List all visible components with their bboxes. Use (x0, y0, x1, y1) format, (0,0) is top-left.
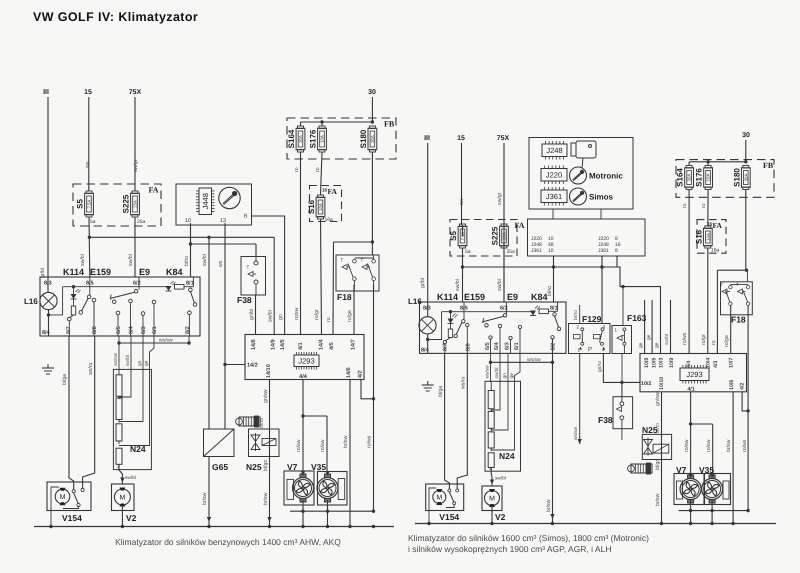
svg-text:8/7: 8/7 (66, 326, 72, 334)
svg-text:10/4: 10/4 (706, 358, 712, 368)
svg-text:14/7: 14/7 (351, 339, 357, 350)
svg-text:VW GOLF IV: Klimatyzator: VW GOLF IV: Klimatyzator (33, 10, 198, 24)
svg-text:10A: 10A (320, 135, 325, 143)
svg-text:8/1: 8/1 (550, 306, 558, 312)
svg-text:J293: J293 (298, 356, 314, 365)
svg-text:ro/ws: ro/ws (682, 332, 688, 345)
svg-text:ws/sw: ws/sw (573, 426, 579, 440)
svg-text:ws/ro: ws/ro (461, 376, 467, 389)
svg-text:M: M (60, 494, 66, 501)
svg-text:8: 8 (615, 248, 618, 254)
svg-text:4/1: 4/1 (687, 387, 694, 393)
svg-text:25A: 25A (502, 232, 507, 240)
svg-text:N24: N24 (130, 444, 146, 454)
svg-text:K84: K84 (531, 292, 548, 302)
svg-text:25A: 25A (133, 200, 138, 208)
svg-text:4/3: 4/3 (713, 361, 719, 368)
svg-text:30A: 30A (687, 174, 692, 182)
svg-text:V154: V154 (62, 513, 82, 523)
svg-text:gr/bl: gr/bl (420, 278, 426, 288)
svg-text:8/3: 8/3 (423, 306, 431, 312)
svg-text:75X: 75X (497, 135, 510, 142)
svg-text:FA: FA (149, 186, 159, 195)
svg-text:J361: J361 (531, 248, 542, 254)
svg-text:sw/bl: sw/bl (495, 476, 506, 482)
svg-text:ws/ro: ws/ro (88, 362, 94, 375)
svg-text:4/2: 4/2 (740, 383, 746, 390)
svg-text:E9: E9 (139, 267, 150, 277)
svg-text:F129: F129 (582, 314, 602, 324)
svg-text:br/sw: br/sw (263, 492, 269, 505)
svg-text:ro/sw: ro/sw (706, 439, 712, 452)
svg-text:10/10: 10/10 (659, 377, 665, 390)
svg-text:br/sw: br/sw (546, 499, 552, 512)
svg-text:14/6: 14/6 (346, 367, 352, 378)
svg-text:K84: K84 (166, 267, 183, 277)
svg-text:6/5: 6/5 (116, 326, 122, 334)
svg-text:Motronic: Motronic (589, 172, 623, 181)
svg-text:S176: S176 (695, 168, 704, 187)
svg-text:T: T (736, 282, 739, 287)
svg-text:E159: E159 (464, 292, 485, 302)
svg-text:gn/ro: gn/ro (597, 361, 603, 372)
svg-text:M: M (489, 496, 495, 503)
svg-text:ws/sw: ws/sw (159, 338, 173, 344)
svg-text:ge: ge (639, 342, 644, 348)
svg-text:ro: ro (701, 203, 707, 208)
svg-text:br/sw: br/sw (202, 492, 208, 505)
svg-text:6/3: 6/3 (141, 326, 147, 334)
svg-text:25a: 25a (507, 249, 516, 255)
svg-text:S176: S176 (309, 129, 318, 148)
svg-text:sw: sw (459, 198, 465, 205)
svg-text:bl/ro: bl/ro (184, 256, 190, 266)
svg-text:III: III (424, 135, 430, 142)
svg-text:10/2: 10/2 (641, 381, 651, 387)
svg-text:bl/gn: bl/gn (655, 459, 661, 470)
svg-text:14/4: 14/4 (319, 338, 325, 350)
svg-text:G65: G65 (212, 462, 228, 472)
svg-text:14/10: 14/10 (266, 364, 272, 378)
svg-text:sw/bl: sw/bl (455, 279, 461, 291)
svg-text:14/2: 14/2 (247, 363, 258, 369)
svg-text:J220: J220 (546, 170, 562, 179)
svg-text:sw/bl: sw/bl (202, 254, 208, 266)
svg-text:10/5: 10/5 (652, 358, 658, 368)
svg-text:gn/bl: gn/bl (249, 309, 255, 320)
svg-text:ge: ge (655, 342, 660, 348)
svg-text:gn: gn (278, 314, 284, 320)
svg-text:10A: 10A (706, 174, 711, 182)
svg-text:10A: 10A (318, 203, 323, 211)
svg-text:J448: J448 (201, 193, 210, 209)
svg-text:ws: ws (218, 260, 224, 267)
svg-text:6/3: 6/3 (505, 342, 511, 350)
svg-text:sw/bl: sw/bl (494, 368, 500, 379)
svg-text:N25: N25 (246, 462, 262, 472)
svg-text:FB: FB (384, 120, 395, 129)
svg-text:L16: L16 (408, 297, 422, 306)
svg-text:6/1: 6/1 (514, 342, 520, 350)
svg-text:N24: N24 (499, 451, 515, 461)
svg-text:FA: FA (713, 221, 723, 230)
svg-text:E9: E9 (507, 292, 518, 302)
svg-text:T: T (361, 258, 364, 263)
svg-text:14/8: 14/8 (251, 339, 257, 350)
svg-text:16a: 16a (325, 217, 334, 223)
svg-text:ge: ge (647, 334, 652, 340)
svg-text:J361: J361 (546, 192, 562, 201)
svg-text:6/1: 6/1 (152, 326, 158, 334)
svg-text:8/1: 8/1 (186, 281, 194, 287)
svg-text:ro/sw: ro/sw (296, 439, 302, 452)
svg-text:ro/ge: ro/ge (724, 335, 730, 347)
svg-text:br/sw: br/sw (343, 435, 349, 448)
svg-text:S225: S225 (122, 194, 131, 213)
svg-text:N25: N25 (642, 425, 658, 435)
svg-text:FA: FA (515, 221, 525, 230)
svg-text:14/5: 14/5 (280, 339, 286, 350)
svg-text:sw/bl: sw/bl (125, 475, 136, 481)
svg-text:F38: F38 (237, 295, 252, 305)
svg-text:ge: ge (145, 360, 150, 366)
svg-text:sw/bl: sw/bl (664, 334, 670, 345)
svg-text:30A: 30A (298, 135, 303, 143)
svg-text:8/4: 8/4 (42, 330, 51, 336)
svg-text:S5: S5 (76, 199, 85, 209)
svg-text:gn: gn (503, 373, 508, 379)
svg-text:bl/gn: bl/gn (263, 460, 269, 471)
svg-text:sw/gr: sw/gr (133, 159, 139, 172)
svg-text:F163: F163 (627, 313, 647, 323)
svg-text:S180: S180 (732, 168, 741, 187)
svg-text:S164: S164 (287, 129, 296, 148)
svg-text:30: 30 (742, 132, 750, 139)
svg-text:30A: 30A (743, 174, 748, 182)
svg-text:ro: ro (326, 317, 332, 322)
svg-text:M: M (436, 495, 442, 502)
svg-text:10/9: 10/9 (669, 358, 675, 368)
svg-text:ws/sw: ws/sw (113, 352, 119, 366)
svg-text:ro/sw: ro/sw (320, 439, 326, 452)
svg-text:sw/bl: sw/bl (268, 310, 274, 322)
svg-text:P: P (588, 346, 592, 353)
svg-text:Klimatyzator do silników 1600: Klimatyzator do silników 1600 cm³ (Simos… (408, 533, 649, 543)
svg-text:ws/sw: ws/sw (485, 365, 491, 379)
svg-text:T: T (721, 282, 724, 287)
svg-text:sw: sw (85, 161, 91, 168)
svg-text:ro/ws: ro/ws (367, 435, 373, 448)
svg-text:V2: V2 (126, 513, 137, 523)
svg-text:F18: F18 (731, 315, 746, 325)
svg-text:L16: L16 (24, 297, 38, 306)
svg-text:S164: S164 (676, 168, 685, 187)
svg-text:6/4: 6/4 (129, 325, 135, 334)
svg-text:ge: ge (510, 373, 515, 379)
svg-text:sw/bl: sw/bl (128, 254, 134, 266)
svg-text:8/8: 8/8 (92, 326, 98, 334)
svg-text:ro/ws: ro/ws (742, 439, 748, 452)
svg-text:4/2: 4/2 (358, 370, 364, 378)
svg-text:ro: ro (682, 203, 688, 208)
svg-text:K114: K114 (63, 267, 84, 277)
svg-text:III: III (43, 89, 49, 96)
svg-text:ws/sw: ws/sw (527, 357, 541, 363)
svg-text:S5: S5 (449, 231, 458, 241)
svg-text:sw/bl: sw/bl (497, 279, 503, 291)
svg-text:br/ro: br/ro (573, 310, 579, 320)
svg-text:5a: 5a (90, 219, 96, 225)
svg-text:E159: E159 (90, 267, 111, 277)
svg-text:sw/bl: sw/bl (80, 254, 86, 266)
svg-text:ro/sw: ro/sw (684, 439, 690, 452)
svg-text:V154: V154 (439, 512, 459, 522)
svg-text:6/4: 6/4 (494, 341, 500, 350)
svg-text:10/6: 10/6 (729, 380, 735, 390)
svg-text:8: 8 (244, 214, 247, 220)
svg-text:S16: S16 (307, 199, 316, 214)
svg-text:10A: 10A (705, 233, 710, 241)
svg-text:8/7: 8/7 (443, 343, 449, 351)
svg-text:J248: J248 (546, 146, 562, 155)
svg-text:6/2: 6/2 (133, 281, 141, 287)
svg-text:V2: V2 (495, 512, 506, 522)
svg-text:ro/gr: ro/gr (701, 334, 707, 345)
svg-text:i silników wysokoprężnych 1900: i silników wysokoprężnych 1900 cm³ AGP, … (408, 544, 611, 554)
svg-text:10/7: 10/7 (729, 358, 735, 368)
svg-text:S225: S225 (491, 226, 500, 245)
svg-text:M: M (119, 495, 125, 502)
svg-text:S16: S16 (694, 229, 703, 244)
svg-text:J361: J361 (598, 248, 609, 254)
svg-text:Klimatyzator do silników benzy: Klimatyzator do silników benzynowych 140… (115, 537, 341, 547)
svg-text:Simos: Simos (589, 193, 614, 202)
svg-text:J293: J293 (686, 370, 702, 379)
svg-text:4/5: 4/5 (329, 342, 335, 350)
svg-text:8/2: 8/2 (185, 326, 191, 334)
svg-text:bl/ro: bl/ro (547, 286, 553, 296)
svg-text:10/3: 10/3 (659, 358, 665, 368)
svg-text:4/1: 4/1 (298, 342, 304, 350)
svg-text:br/ro: br/ro (259, 418, 265, 428)
svg-text:10: 10 (548, 248, 554, 254)
svg-text:F18: F18 (337, 292, 352, 302)
svg-text:16a: 16a (711, 248, 720, 254)
svg-text:10/8: 10/8 (644, 358, 650, 368)
svg-text:sw/gr: sw/gr (497, 192, 503, 205)
svg-text:S180: S180 (359, 129, 368, 148)
svg-text:ro/ge: ro/ge (347, 310, 353, 322)
svg-text:25a: 25a (137, 219, 146, 225)
svg-text:4/4: 4/4 (299, 374, 308, 380)
svg-text:T: T (247, 265, 250, 270)
svg-text:8/8: 8/8 (466, 343, 472, 351)
svg-text:K114: K114 (437, 292, 458, 302)
svg-text:gn/sw: gn/sw (655, 392, 661, 406)
svg-text:ro/sw: ro/sw (294, 307, 300, 320)
svg-text:ro: ro (294, 167, 300, 172)
svg-text:15: 15 (457, 135, 465, 142)
svg-text:14/9: 14/9 (271, 339, 277, 350)
svg-text:br/sw: br/sw (726, 439, 732, 452)
svg-text:bl/ge: bl/ge (62, 374, 68, 385)
svg-text:sw/bl: sw/bl (125, 355, 131, 366)
svg-text:ro: ro (315, 167, 321, 172)
svg-text:7.5A: 7.5A (87, 199, 92, 208)
svg-text:75X: 75X (129, 89, 142, 96)
svg-text:30A: 30A (370, 135, 375, 143)
svg-text:8/2: 8/2 (551, 343, 557, 351)
svg-text:gn/sw: gn/sw (263, 389, 269, 403)
svg-text:30: 30 (368, 89, 376, 96)
svg-text:ro/gr: ro/gr (314, 309, 320, 320)
svg-text:4/4: 4/4 (686, 361, 692, 368)
svg-text:15: 15 (84, 89, 92, 96)
svg-text:T: T (341, 258, 344, 263)
svg-text:8/4: 8/4 (421, 348, 430, 354)
svg-text:6/5: 6/5 (485, 342, 491, 350)
svg-text:ro: ro (711, 340, 717, 345)
svg-text:FA: FA (328, 187, 338, 196)
svg-text:F38: F38 (598, 415, 613, 425)
svg-text:br/sw: br/sw (655, 493, 661, 506)
svg-text:bl/ge: bl/ge (438, 386, 444, 397)
svg-text:5a: 5a (465, 249, 471, 255)
svg-text:gn: gn (138, 360, 143, 366)
svg-text:FB: FB (763, 161, 774, 170)
